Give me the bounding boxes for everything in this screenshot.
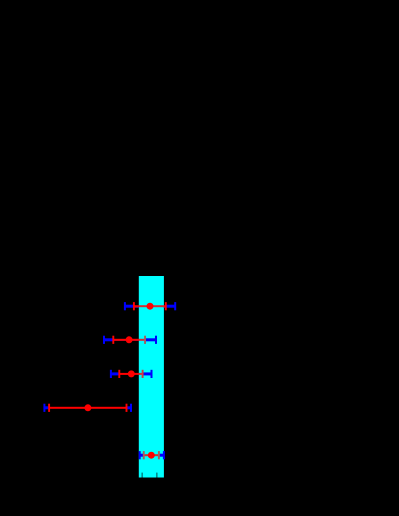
data point 2 [103, 336, 157, 344]
data point 3 [110, 370, 153, 378]
axis tick A on band bottom [142, 473, 143, 478]
cyan average band [139, 276, 164, 478]
data point 1 [124, 302, 176, 310]
axis tick B on band bottom [156, 473, 157, 478]
data point 5 [139, 451, 165, 459]
data point 4 [43, 404, 132, 412]
